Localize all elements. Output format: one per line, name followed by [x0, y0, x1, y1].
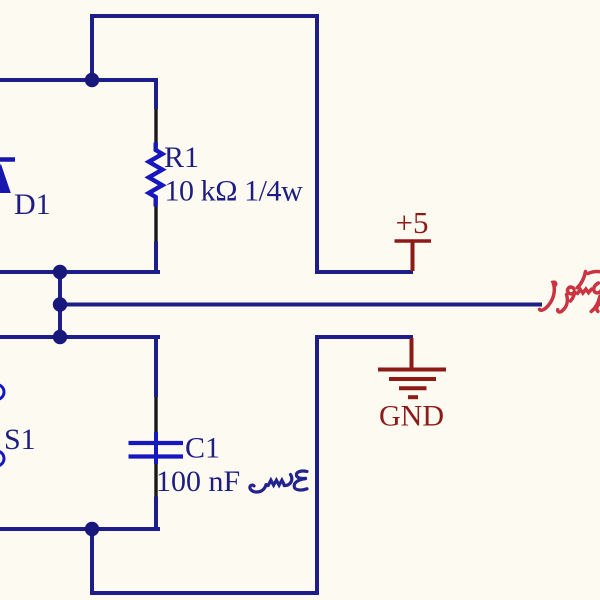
switch S1 terminal circle bottom [0, 451, 4, 466]
svg-text:D1: D1 [14, 188, 51, 221]
capacitor C1 bottom plate [129, 454, 184, 458]
ground GND bar 4 [408, 395, 418, 399]
wire node column vertical [58, 272, 62, 337]
svg-text:GND: GND [379, 400, 444, 433]
wire to GND rail [315, 335, 413, 339]
wire to +5 rail [315, 270, 413, 274]
wire right vertical upper [315, 14, 319, 272]
ground GND bar 1 [378, 368, 446, 372]
wire y80 horizontal [0, 78, 156, 82]
ground GND stem [410, 338, 414, 369]
resistor R1 top pin [154, 109, 157, 145]
svg-text:S1: S1 [4, 423, 36, 456]
capacitor C1 top plate [129, 441, 184, 445]
power +5 stem [411, 241, 415, 271]
capacitor C1 top stub [154, 432, 158, 443]
wire C1 bottom lead [154, 497, 158, 530]
svg-text:C1: C1 [185, 432, 220, 465]
wire left vertical upper [90, 14, 94, 80]
diode D1 triangle [0, 164, 11, 194]
annotation adasi (lens) in persian, blue [250, 471, 307, 492]
junction dot at (92,80) [85, 73, 99, 87]
wire y529 horizontal [0, 527, 158, 529]
wire y272 horizontal [0, 270, 158, 272]
ground GND bar 2 [389, 377, 436, 381]
wire left vertical lower [90, 529, 94, 593]
annotation microcontroller in persian handwriting, red [540, 272, 600, 312]
junction dot at (60,337) [53, 330, 67, 344]
junction dot at (92,529) [85, 522, 99, 536]
power +5 bar [395, 239, 432, 243]
wire top horizontal [92, 14, 317, 18]
wire R1 bottom lead [154, 242, 158, 273]
capacitor C1 bottom pin [154, 464, 157, 497]
resistor R1 body [149, 143, 163, 207]
junction dot at (60,304) [53, 297, 67, 311]
svg-text:R1: R1 [164, 141, 199, 174]
capacitor C1 top pin [154, 397, 157, 432]
wire y337 horizontal [0, 337, 158, 339]
wire long signal to microcontroller [60, 303, 542, 307]
switch S1 terminal circle top [0, 385, 4, 400]
ground GND bar 3 [399, 386, 427, 390]
svg-text:100 nF: 100 nF [156, 465, 240, 498]
capacitor C1 mid stub [154, 443, 158, 457]
diode D1 cathode bar [0, 157, 15, 162]
svg-text:10 kΩ 1/4w: 10 kΩ 1/4w [165, 175, 304, 208]
wire right vertical lower [315, 337, 319, 595]
resistor R1 bottom pin [154, 207, 157, 242]
junction dot at (60,272) [53, 265, 67, 279]
capacitor C1 bottom stub [154, 457, 158, 465]
svg-text:+5: +5 [396, 205, 429, 240]
wire bottom horizontal [90, 591, 317, 595]
wire C1 top lead [154, 337, 158, 397]
wire R1 top lead [154, 78, 158, 109]
